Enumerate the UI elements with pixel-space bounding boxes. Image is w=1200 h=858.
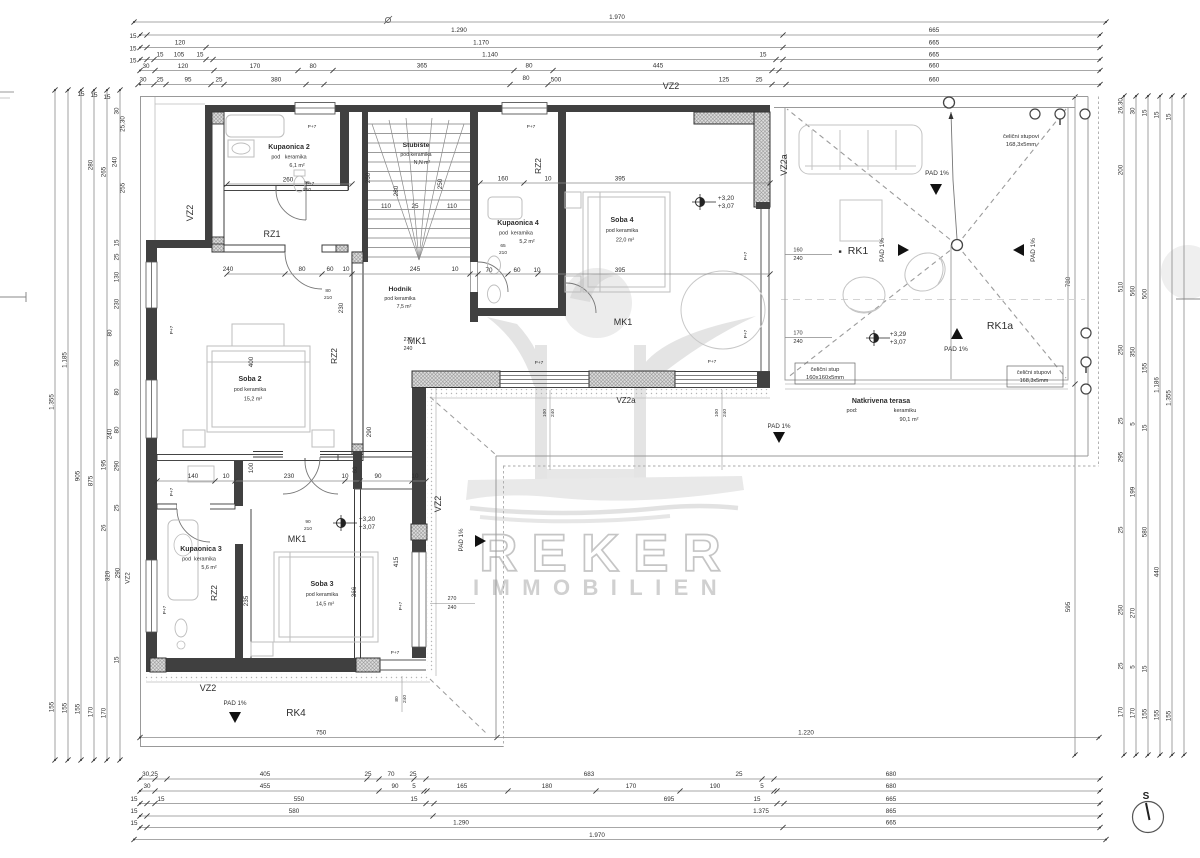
scan artifact disc right edge — [1161, 245, 1200, 299]
svg-text:MK1: MK1 — [288, 534, 307, 544]
svg-text:865: 865 — [886, 808, 897, 815]
svg-text:290: 290 — [114, 460, 121, 471]
svg-text:30: 30 — [143, 783, 151, 790]
svg-text:665: 665 — [929, 52, 940, 59]
svg-text:25,30: 25,30 — [120, 116, 127, 132]
svg-text:5,6 m²: 5,6 m² — [201, 565, 216, 571]
svg-text:665: 665 — [886, 820, 897, 827]
svg-text:195: 195 — [101, 459, 108, 470]
svg-text:15: 15 — [130, 796, 138, 803]
svg-text:pod keramika: pod keramika — [306, 592, 338, 598]
section mark right margin — [1176, 298, 1200, 300]
svg-text:905: 905 — [75, 470, 82, 481]
svg-text:čelični stupovi: čelični stupovi — [1017, 370, 1051, 376]
svg-text:15: 15 — [1166, 113, 1173, 121]
svg-text:25: 25 — [755, 77, 763, 84]
Soba3 door gap north — [283, 451, 320, 459]
svg-text:15: 15 — [196, 52, 204, 59]
svg-text:10: 10 — [411, 473, 419, 480]
steel column circle top — [944, 97, 955, 108]
svg-text:VZ2: VZ2 — [663, 81, 680, 91]
svg-text:5: 5 — [1130, 422, 1137, 426]
bathtub Kupaonica2 — [226, 115, 284, 137]
svg-text:440: 440 — [1154, 566, 1161, 577]
svg-text:415: 415 — [393, 556, 400, 567]
watermark wave band — [466, 476, 744, 501]
svg-text:100: 100 — [714, 409, 720, 417]
svg-text:S: S — [1143, 791, 1150, 802]
svg-text:P+7: P+7 — [308, 124, 317, 130]
interior dim row Kupaonica4/Soba4 160-10-395 — [480, 182, 770, 184]
svg-text:780: 780 — [1065, 276, 1072, 287]
svg-text:PAD 1%: PAD 1% — [458, 528, 465, 551]
window east lower wall — [412, 552, 426, 647]
svg-text:240: 240 — [550, 409, 556, 417]
svg-text:30: 30 — [114, 359, 121, 367]
svg-text:5,2 m²: 5,2 m² — [519, 239, 534, 245]
svg-text:280: 280 — [88, 159, 95, 170]
svg-text:665: 665 — [929, 27, 940, 34]
Kupaonica2 south wall — [224, 186, 348, 191]
door strip bottom east gap — [380, 659, 426, 661]
level symbol MK1 +3,20 — [333, 515, 376, 531]
svg-text:N,N m²: N,N m² — [414, 160, 431, 166]
svg-text:60: 60 — [352, 466, 359, 474]
svg-text:160x160x5mm: 160x160x5mm — [806, 375, 844, 381]
svg-text:pod keramika: pod keramika — [384, 296, 415, 302]
svg-text:70: 70 — [485, 267, 493, 274]
svg-text:265: 265 — [101, 166, 108, 177]
svg-text:6,1 m²: 6,1 m² — [289, 163, 304, 169]
terrace outline — [785, 108, 1068, 381]
svg-text:260: 260 — [283, 177, 294, 184]
svg-text:550: 550 — [294, 796, 305, 803]
toilet Kupaonica4 — [488, 256, 501, 274]
svg-text:14,5 m²: 14,5 m² — [316, 602, 334, 608]
svg-text:90: 90 — [305, 519, 311, 525]
door arc Kupaonica2 — [276, 190, 306, 220]
svg-text:Kupaonica 4: Kupaonica 4 — [497, 220, 539, 227]
svg-text:80: 80 — [309, 63, 317, 70]
bed Soba2 — [183, 324, 334, 447]
svg-text:380: 380 — [271, 77, 282, 84]
dining table MK1 ellipse — [681, 271, 765, 349]
hatched column west upper bottom — [212, 237, 224, 249]
east gravel strip dotted — [427, 390, 435, 672]
svg-text:15: 15 — [129, 46, 137, 53]
svg-text:pod keramika: pod keramika — [271, 155, 306, 161]
svg-text:250: 250 — [1118, 604, 1125, 615]
svg-text:pod keramika: pod keramika — [499, 231, 533, 237]
svg-text:1.970: 1.970 — [589, 832, 605, 839]
terrace sofa — [799, 125, 922, 174]
terrace table square — [840, 200, 882, 241]
bottom dimension strip — [130, 771, 1108, 842]
hatched column bottom east — [356, 658, 380, 672]
window top wall middle — [502, 103, 547, 115]
svg-text:26,30: 26,30 — [1118, 98, 1125, 114]
svg-text:1.185: 1.185 — [62, 352, 69, 368]
outer wall step — [146, 240, 212, 248]
svg-text:80: 80 — [298, 266, 306, 273]
svg-text:230: 230 — [284, 473, 295, 480]
svg-text:125: 125 — [719, 77, 730, 84]
svg-text:5: 5 — [412, 783, 416, 790]
RZ2 shaft wall east of Soba2 — [352, 252, 363, 455]
svg-text:750: 750 — [316, 730, 327, 737]
svg-text:15: 15 — [90, 92, 98, 99]
svg-text:80: 80 — [394, 696, 400, 702]
corridor south wall / Kupaonica3 north — [157, 504, 235, 509]
svg-text:500: 500 — [1142, 288, 1149, 299]
svg-text:110: 110 — [381, 203, 392, 210]
svg-text:15: 15 — [103, 94, 111, 101]
window south band west — [500, 375, 589, 377]
svg-text:250: 250 — [437, 178, 444, 189]
svg-text:660: 660 — [929, 63, 940, 70]
svg-text:P+7: P+7 — [527, 124, 536, 130]
svg-text:680: 680 — [886, 783, 897, 790]
svg-text:10: 10 — [342, 266, 350, 273]
svg-text:1.290: 1.290 — [451, 27, 467, 34]
sink Kupaonica2 — [228, 140, 254, 157]
svg-text:RK4: RK4 — [286, 708, 306, 719]
watermark right wing — [635, 316, 756, 386]
svg-text:čelični stupovi: čelični stupovi — [1003, 134, 1039, 140]
hatched column Soba2 NW — [212, 244, 224, 252]
washbasin corridor MK1 lower — [188, 466, 214, 482]
watermark deck bar — [547, 469, 634, 479]
terrace top edge line — [774, 107, 1075, 109]
site boundary top — [140, 96, 1088, 98]
svg-text:15: 15 — [114, 239, 121, 247]
interior dim row lower 140-10-230 — [157, 480, 426, 482]
right dimension strip — [1118, 93, 1187, 757]
svg-text:10: 10 — [341, 473, 349, 480]
svg-text:+3,20: +3,20 — [718, 195, 735, 202]
east wall corner piece — [757, 371, 770, 387]
svg-text:VZ2: VZ2 — [185, 205, 195, 222]
svg-text:RZ2: RZ2 — [533, 158, 543, 174]
door gap Kupaonica 4 — [471, 262, 478, 292]
svg-text:200: 200 — [1118, 164, 1125, 175]
svg-text:30: 30 — [139, 77, 147, 84]
svg-text:130: 130 — [114, 271, 121, 282]
svg-text:270: 270 — [404, 337, 413, 343]
Kupaonica4 east wall — [558, 112, 566, 316]
svg-text:875: 875 — [88, 475, 95, 486]
outer wall east lower — [412, 388, 426, 658]
svg-text:+3,29: +3,29 — [890, 331, 907, 338]
svg-text:Kupaonica 2: Kupaonica 2 — [268, 144, 310, 151]
svg-text:80: 80 — [522, 75, 530, 82]
svg-text:60: 60 — [513, 267, 521, 274]
svg-text:230: 230 — [114, 298, 121, 309]
Soba3 east wall lines — [354, 489, 356, 658]
site boundary south of terrace dotted — [503, 465, 1099, 467]
window west wall 1 — [146, 262, 157, 308]
terrace gravel band south — [785, 383, 1068, 385]
toilet RZ1 — [294, 170, 305, 176]
site boundary right dotted — [1098, 97, 1100, 467]
hatched wall block south band east — [589, 371, 675, 388]
steel column circles east — [1081, 328, 1091, 338]
svg-text:595: 595 — [1065, 601, 1072, 612]
staircase flight direction lines — [372, 118, 464, 260]
site boundary left — [140, 97, 142, 748]
svg-text:255: 255 — [120, 182, 127, 193]
terrace chair 2 — [897, 245, 952, 299]
svg-text:350: 350 — [1130, 346, 1137, 357]
svg-text:240: 240 — [448, 605, 457, 611]
terrace small dim 160/240 — [785, 254, 832, 256]
window west wall 2 — [146, 380, 157, 438]
svg-text:155: 155 — [1142, 708, 1149, 719]
svg-text:30: 30 — [114, 107, 121, 115]
terrace ridge column circle — [952, 240, 963, 251]
svg-text:RZ2: RZ2 — [209, 585, 219, 601]
svg-text:25: 25 — [1118, 417, 1125, 425]
interior dim row hodnik 240-80-60 — [227, 273, 770, 275]
svg-text:10: 10 — [533, 267, 541, 274]
hatched column west upper top — [212, 112, 224, 124]
svg-text:155: 155 — [62, 702, 69, 713]
svg-text:240: 240 — [223, 266, 234, 273]
svg-text:165: 165 — [457, 783, 468, 790]
svg-text:1.170: 1.170 — [473, 40, 489, 47]
svg-text:235: 235 — [243, 595, 250, 606]
svg-text:5: 5 — [1130, 665, 1137, 669]
Kupaonica3/Soba3 divider wall — [235, 544, 243, 658]
window top wall west — [295, 103, 335, 115]
svg-text:PAD 1%: PAD 1% — [944, 346, 968, 353]
svg-text:10: 10 — [451, 266, 459, 273]
svg-text:■: ■ — [838, 249, 841, 255]
outer wall top — [205, 105, 770, 112]
svg-text:10: 10 — [544, 176, 552, 183]
svg-text:245: 245 — [410, 266, 421, 273]
bed Soba3 — [251, 552, 378, 656]
svg-text:240: 240 — [793, 339, 802, 345]
svg-text:1.375: 1.375 — [753, 808, 769, 815]
svg-text:+3,07: +3,07 — [718, 203, 735, 210]
svg-text:240: 240 — [404, 346, 413, 352]
svg-text:683: 683 — [584, 771, 595, 778]
bed Soba4 — [565, 192, 670, 292]
hatched column RZ2 top — [352, 252, 363, 263]
hatched column east lower — [411, 524, 427, 540]
svg-text:80: 80 — [114, 426, 121, 434]
RZ1 south wall segment B — [322, 245, 348, 252]
svg-text:90,1 m²: 90,1 m² — [900, 417, 919, 423]
svg-text:P+7: P+7 — [743, 329, 749, 338]
Kupaonica4 south wall — [478, 308, 566, 316]
svg-text:250: 250 — [1118, 344, 1125, 355]
svg-text:240: 240 — [107, 428, 114, 439]
terrace small dim 170/240 — [785, 337, 832, 339]
svg-text:170: 170 — [88, 706, 95, 717]
svg-text:25: 25 — [735, 771, 743, 778]
svg-text:155: 155 — [1142, 362, 1149, 373]
svg-text:pod keramika: pod keramika — [234, 387, 266, 393]
svg-text:15: 15 — [114, 656, 121, 664]
svg-text:140: 140 — [188, 473, 199, 480]
svg-text:366: 366 — [351, 586, 358, 597]
wall niche Kupaonica2 east — [340, 112, 349, 190]
svg-text:155: 155 — [49, 701, 56, 712]
svg-text:15: 15 — [759, 52, 767, 59]
svg-text:pod keramika: pod keramika — [182, 557, 216, 563]
svg-text:pod keramika: pod keramika — [400, 152, 431, 158]
svg-text:210: 210 — [304, 526, 312, 532]
dimension line 750 / 1.220 at bottom — [137, 730, 1101, 741]
watermark left pylon — [535, 345, 547, 479]
svg-text:Soba 3: Soba 3 — [311, 581, 334, 588]
inner boundary offset top-left — [155, 103, 205, 105]
svg-text:25: 25 — [409, 771, 417, 778]
svg-text:70: 70 — [387, 771, 395, 778]
svg-text:80: 80 — [107, 329, 114, 337]
terrace centre vertical line — [950, 245, 952, 379]
watermark logo disc — [562, 268, 632, 338]
svg-text:365: 365 — [417, 63, 428, 70]
svg-text:560: 560 — [1130, 285, 1137, 296]
PAD marker terrace south — [951, 328, 963, 339]
svg-text:270: 270 — [1130, 607, 1137, 618]
outer wall west upper — [205, 105, 212, 240]
stub wall MK1 corridor — [234, 461, 243, 506]
svg-text:100: 100 — [248, 462, 255, 473]
svg-text:160: 160 — [793, 248, 802, 254]
site boundary bottom — [141, 746, 504, 748]
svg-text:400: 400 — [248, 356, 255, 367]
svg-text:580: 580 — [1142, 526, 1149, 537]
svg-text:445: 445 — [653, 63, 664, 70]
svg-text:168,3x5mm: 168,3x5mm — [1006, 142, 1036, 148]
svg-text:Soba 4: Soba 4 — [611, 217, 634, 224]
svg-text:P+7: P+7 — [398, 601, 404, 610]
svg-text:15: 15 — [1142, 424, 1149, 432]
svg-text:1.140: 1.140 — [482, 52, 498, 59]
terrace roof hip dashed SW — [787, 245, 957, 378]
svg-text:510: 510 — [1118, 281, 1125, 292]
door arc Kupaonica4 — [478, 262, 508, 292]
svg-text:15: 15 — [1142, 665, 1149, 673]
hatched wall east of Soba 4 — [754, 112, 770, 207]
svg-text:95: 95 — [184, 77, 192, 84]
level symbol terrace +3,29 — [866, 330, 907, 346]
svg-text:VZ2a: VZ2a — [616, 396, 636, 405]
svg-text:1.355: 1.355 — [1166, 390, 1173, 406]
south band base lines — [412, 371, 770, 373]
svg-text:keramiku: keramiku — [894, 408, 917, 414]
svg-text:Kupaonica 3: Kupaonica 3 — [180, 546, 222, 553]
svg-text:P+7: P+7 — [535, 360, 544, 366]
svg-text:30: 30 — [1130, 107, 1137, 115]
svg-text:320: 320 — [105, 570, 112, 581]
svg-text:15: 15 — [156, 52, 164, 59]
shower Kupaonica4 — [488, 197, 522, 219]
svg-text:80: 80 — [325, 288, 331, 294]
svg-text:155: 155 — [1166, 710, 1173, 721]
svg-text:110: 110 — [447, 203, 458, 210]
svg-text:155: 155 — [1154, 709, 1161, 720]
outer wall bottom — [150, 658, 380, 672]
door gap Kupaonica3 north — [177, 504, 210, 510]
gravel strip below bottom wall — [146, 674, 430, 681]
section mark left margin — [0, 296, 26, 298]
svg-text:15: 15 — [77, 91, 85, 98]
stair east wall / Kupaonica4 west wall — [470, 112, 478, 322]
svg-text:170: 170 — [1130, 707, 1137, 718]
svg-text:65: 65 — [500, 243, 506, 249]
svg-text:80: 80 — [114, 388, 121, 396]
svg-text:240: 240 — [793, 256, 802, 262]
svg-text:455: 455 — [260, 783, 271, 790]
svg-text:695: 695 — [664, 796, 675, 803]
svg-text:PAD 1%: PAD 1% — [224, 700, 247, 707]
svg-text:260: 260 — [365, 172, 372, 183]
north compass — [1133, 791, 1164, 833]
svg-text:RK1: RK1 — [848, 245, 869, 257]
svg-text:199: 199 — [1130, 486, 1137, 497]
watermark right pylon — [634, 345, 646, 479]
svg-text:155: 155 — [75, 703, 82, 714]
window south band east — [675, 375, 757, 377]
svg-text:IMMOBILIEN: IMMOBILIEN — [473, 575, 729, 600]
svg-text:RZ1: RZ1 — [263, 229, 280, 239]
RZ1 south wall / Soba2 north wall segment A — [212, 245, 285, 252]
Soba2 south wall — [157, 455, 363, 461]
hatched wall block south band west — [412, 371, 500, 388]
svg-text:VZ2: VZ2 — [125, 572, 132, 584]
svg-text:15: 15 — [130, 820, 138, 827]
watermark left wing — [487, 317, 546, 386]
Soba3 north wall — [253, 452, 412, 458]
svg-text:240: 240 — [722, 409, 728, 417]
hatched column bottom west — [150, 658, 166, 672]
terrace roof hip dashed NW — [787, 109, 957, 245]
svg-text:15: 15 — [1142, 109, 1149, 117]
svg-text:25: 25 — [1118, 526, 1125, 534]
svg-text:pod keramika: pod keramika — [606, 228, 638, 234]
svg-text:P+7: P+7 — [162, 605, 168, 614]
svg-text:240: 240 — [112, 156, 119, 167]
top dimension strip — [129, 14, 1108, 87]
svg-text:P+7: P+7 — [306, 181, 315, 187]
hatched column RZ2 bottom — [352, 444, 363, 455]
svg-text:PAD 1%: PAD 1% — [768, 423, 791, 430]
svg-text:168,3x5mm: 168,3x5mm — [1020, 378, 1049, 384]
svg-text:1.290: 1.290 — [453, 820, 469, 827]
svg-text:P+7: P+7 — [743, 251, 749, 260]
svg-text:105: 105 — [174, 52, 185, 59]
south gravel strip VZ2a dotted — [430, 389, 770, 397]
toilet Kupaonica3 — [175, 619, 187, 637]
Soba3 east wall upper chunk — [353, 451, 362, 489]
left dimension strip — [49, 87, 132, 762]
svg-text:pod:: pod: — [847, 408, 858, 414]
section dashed line through terrace — [781, 299, 1085, 301]
svg-text:290: 290 — [366, 426, 373, 437]
svg-text:500: 500 — [551, 77, 562, 84]
svg-text:P+7: P+7 — [169, 325, 175, 334]
svg-text:VZ2: VZ2 — [200, 683, 217, 693]
svg-text:čelični stup: čelični stup — [811, 367, 840, 373]
steel column circles top right — [1030, 109, 1040, 119]
svg-text:210: 210 — [499, 250, 507, 256]
svg-text:26: 26 — [101, 524, 108, 532]
